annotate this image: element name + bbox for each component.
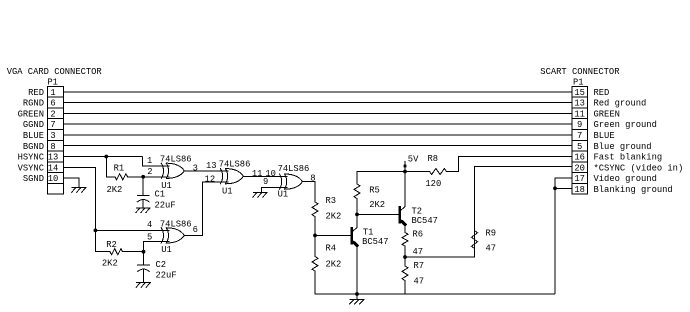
svg-text:22uF: 22uF xyxy=(156,270,177,280)
wire U1 pin11 to U1 pin10 xyxy=(243,175,287,177)
svg-text:17: 17 xyxy=(574,174,585,184)
resistor R7 (47) vertical xyxy=(402,257,408,294)
svg-text:Blanking ground: Blanking ground xyxy=(594,185,673,195)
svg-text:RED: RED xyxy=(28,88,44,98)
resistor R8 (120) horizontal xyxy=(405,169,459,175)
wire T1 collector up to R5 node xyxy=(356,214,358,227)
svg-text:R4: R4 xyxy=(326,244,337,254)
svg-text:Red ground: Red ground xyxy=(594,99,647,109)
wire VSYNC from VGA pin 14 xyxy=(63,167,95,230)
ground symbol (rail) xyxy=(350,300,364,305)
svg-text:10: 10 xyxy=(48,174,59,184)
node T1 emitter / ground rail xyxy=(355,292,359,296)
ground (C2) xyxy=(136,283,150,288)
svg-text:6: 6 xyxy=(50,99,55,109)
svg-text:74LS86: 74LS86 xyxy=(160,155,192,165)
wire R8 to SCART pin 16 Fast blanking xyxy=(459,156,572,171)
node R5 / T1 collector / T2 base xyxy=(355,213,359,217)
capacitor C1 22uF xyxy=(137,196,149,202)
svg-text:13: 13 xyxy=(206,161,217,171)
svg-text:15: 15 xyxy=(574,88,585,98)
resistor R5 (2K2) vertical xyxy=(354,172,360,215)
svg-text:R3: R3 xyxy=(326,196,337,206)
svg-text:20: 20 xyxy=(574,163,585,173)
node HSYNC junction (R1 tap) xyxy=(104,155,108,159)
svg-text:2K2: 2K2 xyxy=(107,185,123,195)
svg-text:U1: U1 xyxy=(161,181,172,191)
svg-text:3: 3 xyxy=(50,131,55,141)
wire GGND net (VGA pin 7 to SCART pin 9) xyxy=(63,123,572,125)
svg-text:R9: R9 xyxy=(486,229,497,239)
svg-text:R5: R5 xyxy=(369,186,380,196)
transistor T2 BC547 (NPN) xyxy=(400,207,405,225)
svg-text:U1: U1 xyxy=(161,245,172,255)
svg-text:Green ground: Green ground xyxy=(594,120,657,130)
svg-text:47: 47 xyxy=(486,244,497,254)
node U1 pin2 / R1 / C1 junction xyxy=(141,175,145,179)
wire BGND net (VGA pin 8 to SCART pin 5) xyxy=(63,145,572,147)
svg-text:16: 16 xyxy=(574,153,585,163)
svg-text:GGND: GGND xyxy=(23,120,44,130)
svg-text:13: 13 xyxy=(48,153,59,163)
svg-text:11: 11 xyxy=(252,169,263,179)
svg-text:1: 1 xyxy=(147,156,152,166)
svg-text:C1: C1 xyxy=(155,190,166,200)
wire ground rail xyxy=(315,293,555,295)
svg-text:BC547: BC547 xyxy=(362,237,388,247)
wire down to C2 xyxy=(143,252,145,265)
svg-text:RGND: RGND xyxy=(23,99,44,109)
svg-text:BC547: BC547 xyxy=(412,216,438,226)
wire U1 pin3 to U1 pin13 xyxy=(184,170,228,172)
wire T1 emitter to ground rail xyxy=(356,246,358,295)
svg-text:C2: C2 xyxy=(156,260,167,270)
wire HSYNC from VGA pin 13 xyxy=(63,155,142,157)
svg-text:120: 120 xyxy=(425,179,441,189)
svg-text:HSYNC: HSYNC xyxy=(18,153,44,163)
node VSYNC junction (R2 tap) xyxy=(94,229,98,233)
wire U1 pin6 to U1 pin12 xyxy=(184,182,228,235)
wire to U1 pin 2 xyxy=(143,176,169,178)
svg-text:18: 18 xyxy=(574,185,585,195)
svg-text:8: 8 xyxy=(50,142,55,152)
wire HSYNC down to R1 xyxy=(105,156,107,176)
wire U1 pin9 to ground xyxy=(262,188,288,193)
svg-text:T1: T1 xyxy=(363,227,374,237)
capacitor C2 22uF xyxy=(138,265,150,271)
wire ground rail up to SCART pin 17 Video ground xyxy=(555,178,572,294)
XOR gate U1c 74LS86 (pins 10,9,8) xyxy=(280,174,303,189)
svg-text:R2: R2 xyxy=(106,240,117,250)
svg-text:47: 47 xyxy=(414,276,425,286)
wire C2 to ground xyxy=(143,270,145,283)
XOR gate U1b 74LS86 (pins 13,12,11) xyxy=(220,169,243,184)
op-amp? no: XOR gate U1a 74LS86 (pins 1,2,3) xyxy=(161,163,184,178)
wire HSYNC to U1 pin 1 xyxy=(143,156,170,165)
wire BLUE net (VGA pin 3 to SCART pin 7) xyxy=(63,134,572,136)
node 5V rail / T2 collector xyxy=(403,170,407,174)
svg-text:SGND: SGND xyxy=(23,174,44,184)
resistor R1 (2K2) horizontal xyxy=(106,174,143,180)
ground (C1) xyxy=(136,208,150,213)
resistor R2 (2K2) horizontal xyxy=(95,249,143,255)
svg-text:R6: R6 xyxy=(413,229,424,239)
wire to U1 pin 5 xyxy=(144,241,170,251)
svg-text:GREEN: GREEN xyxy=(594,109,620,119)
svg-text:2: 2 xyxy=(50,109,55,119)
svg-text:2K2: 2K2 xyxy=(102,259,118,269)
svg-text:5V: 5V xyxy=(408,155,419,165)
svg-text:R8: R8 xyxy=(428,154,439,164)
wire R6/R7 node to R9 xyxy=(405,256,475,258)
svg-text:4: 4 xyxy=(147,220,152,230)
svg-text:T2: T2 xyxy=(412,207,423,217)
ground (rail, below T1) xyxy=(356,294,358,300)
resistor R3 (2K2) vertical xyxy=(312,182,318,236)
svg-text:5: 5 xyxy=(147,232,152,242)
svg-text:BLUE: BLUE xyxy=(594,131,615,141)
XOR gate U1d 74LS86 (pins 4,5,6) xyxy=(161,228,184,243)
wire SGND from VGA pin 10 xyxy=(63,178,79,188)
svg-text:5: 5 xyxy=(577,142,582,152)
svg-text:74LS86: 74LS86 xyxy=(160,219,192,229)
svg-text:Blue ground: Blue ground xyxy=(594,142,652,152)
svg-text:1: 1 xyxy=(50,88,55,98)
svg-text:22uF: 22uF xyxy=(155,200,176,210)
connector P1 (VGA card) body xyxy=(47,86,63,194)
svg-text:R1: R1 xyxy=(114,163,125,173)
node U1 pin5 / R2 / C2 junction xyxy=(142,250,146,254)
svg-text:6: 6 xyxy=(193,225,198,235)
power 5V supply stub xyxy=(404,161,406,172)
wire VSYNC to U1 pin 4 xyxy=(95,229,169,231)
svg-text:BLUE: BLUE xyxy=(23,131,44,141)
svg-text:74LS86: 74LS86 xyxy=(278,164,310,174)
svg-text:Fast blanking: Fast blanking xyxy=(594,153,663,163)
svg-text:2K2: 2K2 xyxy=(369,200,385,210)
svg-text:7: 7 xyxy=(50,120,55,130)
svg-text:2: 2 xyxy=(147,167,152,177)
svg-text:9: 9 xyxy=(577,120,582,130)
resistor R9 (47) vertical xyxy=(472,167,478,258)
wire C1 to ground xyxy=(142,200,144,208)
svg-text:Video ground: Video ground xyxy=(594,174,657,184)
svg-text:U1: U1 xyxy=(278,190,289,200)
wire GREEN net (VGA pin 2 to SCART pin 11) xyxy=(63,112,572,114)
node T1 base junction (R3/R4) xyxy=(313,234,317,238)
wire VSYNC down to R2 xyxy=(94,230,96,251)
ground (SGND) xyxy=(72,188,86,193)
svg-text:2K2: 2K2 xyxy=(326,260,342,270)
wire to SCART pin 18 Blanking ground xyxy=(555,187,572,189)
node pin 18 junction xyxy=(553,186,557,190)
svg-text:14: 14 xyxy=(48,163,59,173)
connector P1 (SCART) body xyxy=(572,86,588,194)
svg-text:VSYNC: VSYNC xyxy=(18,163,44,173)
svg-text:*CSYNC (video in): *CSYNC (video in) xyxy=(594,163,684,173)
resistor R6 (47) vertical xyxy=(402,232,408,257)
wire T2 emitter to R6 xyxy=(404,225,406,233)
ground (U1 pin 9) xyxy=(253,193,267,198)
svg-text:7: 7 xyxy=(577,131,582,141)
resistor R4 (2K2) vertical xyxy=(312,235,318,294)
svg-text:GREEN: GREEN xyxy=(18,109,44,119)
svg-text:9: 9 xyxy=(263,177,268,187)
svg-text:SCART CONNECTOR: SCART CONNECTOR xyxy=(540,67,620,77)
svg-text:74LS86: 74LS86 xyxy=(219,160,251,170)
wire RGND net (VGA pin 6 to SCART pin 13) xyxy=(63,102,572,104)
wire 5V rail (R5 top to T2 collector) xyxy=(357,171,405,173)
wire T2 collector up to 5V rail xyxy=(404,172,406,207)
node R6/R7/R9 junction xyxy=(403,255,407,259)
svg-text:VGA CARD CONNECTOR: VGA CARD CONNECTOR xyxy=(7,67,103,77)
wire U1 pin8 output xyxy=(303,181,316,183)
svg-text:3: 3 xyxy=(193,163,198,173)
wire RED net (VGA pin 1 to SCART pin 15) xyxy=(63,91,572,93)
svg-text:12: 12 xyxy=(205,174,216,184)
svg-text:13: 13 xyxy=(574,99,585,109)
svg-text:2K2: 2K2 xyxy=(326,211,342,221)
wire node to T2 base xyxy=(357,213,399,215)
wire R3/R4 node to T1 base xyxy=(315,234,351,236)
transistor T1 BC547 (NPN) xyxy=(352,228,357,246)
wire down to C1 xyxy=(142,177,144,196)
svg-text:R7: R7 xyxy=(414,261,425,271)
svg-text:47: 47 xyxy=(413,247,424,257)
svg-text:11: 11 xyxy=(574,109,585,119)
svg-text:BGND: BGND xyxy=(23,142,44,152)
svg-text:U1: U1 xyxy=(222,187,233,197)
svg-text:RED: RED xyxy=(594,88,610,98)
wire R9 to SCART pin 20 *CSYNC xyxy=(475,166,572,168)
